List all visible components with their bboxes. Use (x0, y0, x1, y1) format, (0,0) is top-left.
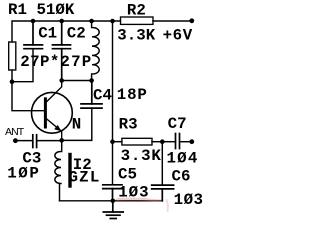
wire ANT to C3 (15, 140, 32, 142)
svg-text:GZL: GZL (69, 168, 101, 186)
node dot emitter (59, 138, 64, 143)
wire C4 bottom to emitter node (62, 108, 92, 140)
svg-text:ANT: ANT (5, 126, 25, 138)
svg-text:R3: R3 (119, 115, 138, 133)
transistor Q1 circle (32, 92, 73, 133)
svg-text:3.3K: 3.3K (117, 27, 155, 45)
svg-text:27P: 27P (60, 53, 92, 71)
inductor L1 (92, 21, 100, 81)
wire top rail (12, 21, 121, 42)
node dot C7 output (189, 139, 194, 144)
node dot collector rail left (59, 78, 64, 83)
capacitor C5 (103, 185, 122, 201)
capacitor C1 (24, 21, 43, 49)
node dot R3 right (160, 139, 165, 144)
inductor I2 core bar (68, 155, 71, 187)
node dot R3 left (110, 139, 115, 144)
svg-text:C5: C5 (118, 165, 137, 183)
wire node to C1 bottom (12, 49, 33, 82)
svg-text:1Ø3: 1Ø3 (174, 191, 204, 209)
svg-text:C6: C6 (172, 167, 191, 185)
wire C6 branch (161, 142, 163, 185)
svg-text:C2: C2 (67, 24, 86, 42)
capacitor C6 (152, 185, 174, 201)
wire C3 to emitter node (37, 140, 62, 142)
svg-text:R2: R2 (127, 2, 146, 20)
wire R3 left lead (113, 141, 122, 143)
node dot L1 top (89, 19, 94, 24)
ground (103, 201, 123, 219)
transistor emitter lead (47, 119, 62, 140)
svg-text:+6V: +6V (163, 27, 193, 45)
node dot ANT terminal (13, 138, 18, 143)
svg-text:C4: C4 (93, 87, 112, 105)
wire R2 right to +6V (153, 20, 192, 22)
capacitor C3 (33, 135, 37, 148)
svg-text:R1 51ØK: R1 51ØK (8, 1, 75, 19)
svg-text:1Ø4: 1Ø4 (167, 150, 199, 168)
wire collector rail (62, 80, 92, 82)
transistor collector lead (47, 81, 62, 102)
svg-text:C7: C7 (168, 115, 187, 133)
resistor R1 (9, 42, 16, 70)
transistor emitter arrowhead (54, 125, 61, 131)
red watermark smudge right edge (167, 200, 168, 211)
capacitor C2 (53, 21, 71, 81)
node dot collector rail right (89, 78, 94, 83)
wire +6V branch vertical (112, 21, 114, 142)
svg-text:C1: C1 (38, 24, 57, 42)
node dot +6V branch top (110, 19, 115, 24)
node dot C2 top (59, 19, 64, 24)
wire C7 to output (180, 141, 192, 143)
wire C5 branch (112, 142, 114, 185)
svg-text:1ØP: 1ØP (7, 165, 40, 183)
inductor I2 (55, 140, 62, 200)
resistor R2 (121, 17, 154, 24)
svg-text:3.3K: 3.3K (121, 147, 162, 165)
resistor R3 (122, 138, 152, 145)
capacitor C4 (81, 81, 102, 109)
wire node down to base corner (12, 82, 44, 111)
capacitor C7 (176, 134, 180, 149)
node dot R1 bottom (10, 79, 15, 84)
wire bottom rail (60, 200, 163, 202)
svg-text:27P*: 27P* (20, 53, 60, 71)
transistor base bar (44, 99, 47, 127)
svg-text:18P: 18P (117, 86, 148, 104)
svg-text:N: N (72, 115, 81, 133)
wire R3 right lead (152, 141, 162, 143)
node dot C1 top (31, 19, 36, 24)
node dot ground (111, 199, 116, 204)
node dot +6V terminal (189, 18, 194, 23)
wire R1 bottom to node (11, 70, 13, 82)
wire R3 node to C7 (162, 141, 175, 143)
red watermark smudge under C5 103 (117, 199, 160, 201)
